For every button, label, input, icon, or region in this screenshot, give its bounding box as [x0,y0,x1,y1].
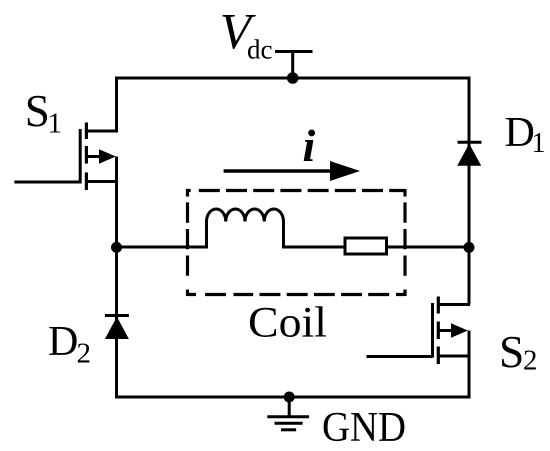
label Vdc [220,5,273,65]
svg-text:GND: GND [322,405,406,451]
svg-text:D: D [48,319,78,365]
junction dot left node [111,242,122,253]
svg-text:S: S [499,326,524,377]
inductor [207,209,284,249]
wire left rail lower [115,157,118,398]
diode D1 [457,142,481,165]
junction dot right node [464,242,475,253]
svg-text:2: 2 [77,338,92,370]
diode D2 [105,316,129,340]
wire middle right [283,246,469,249]
svg-text:dc: dc [247,35,273,65]
junction dot Vdc node [287,72,299,84]
svg-text:1: 1 [532,128,546,159]
transistor S1 [14,123,118,191]
wire top rail [115,77,471,80]
wire left rail upper [115,77,118,132]
label D1 [505,110,546,159]
label S2 [499,326,538,377]
svg-text:i: i [303,120,316,171]
label S1 [25,86,62,140]
svg-text:D: D [505,110,535,156]
junction dot GND node [284,392,295,403]
wire middle left [117,246,208,249]
label D2 [48,319,91,370]
resistor [345,238,387,254]
wire bottom rail [115,396,471,399]
coil dashed box [186,189,405,192]
svg-text:1: 1 [48,108,63,140]
svg-text:S: S [25,86,50,136]
transistor S2 [367,297,471,365]
ground [267,397,309,430]
Vdc terminal bar [275,52,313,79]
wire right rail upper [468,77,471,305]
svg-text:2: 2 [523,345,538,377]
current arrow i [224,161,360,181]
wire right rail lower [468,331,471,398]
svg-text:Coil: Coil [248,300,327,347]
